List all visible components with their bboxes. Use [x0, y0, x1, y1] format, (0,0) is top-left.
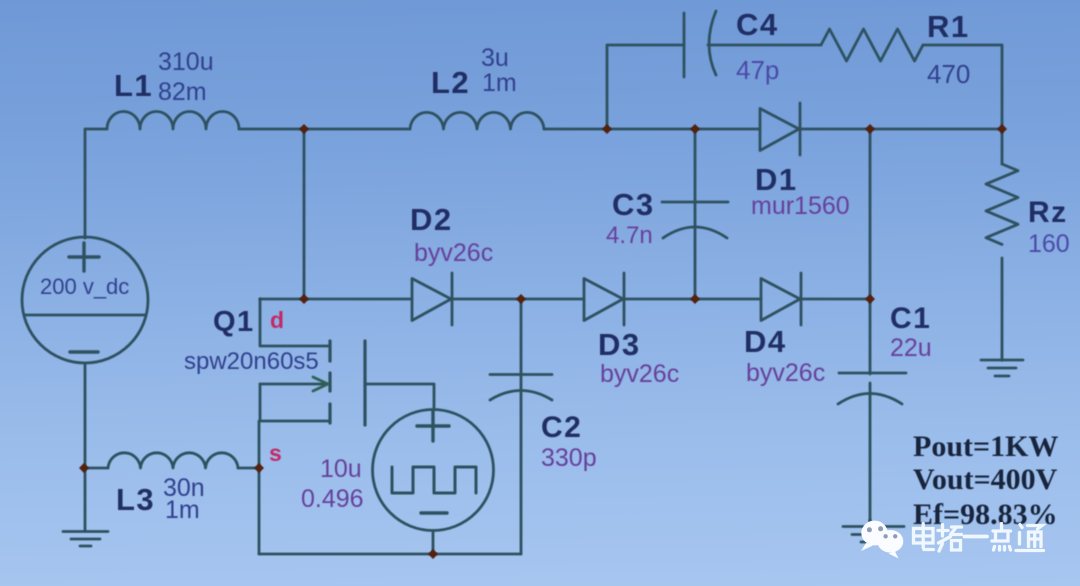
svg-text:byv26c: byv26c: [600, 360, 679, 388]
wire C1 ground lead stub: [869, 520, 872, 527]
voltage source V1 circle: [22, 237, 148, 363]
diode D3: [584, 273, 624, 325]
node top bus x304: [299, 124, 309, 134]
watermark character tong (through): [1016, 525, 1044, 551]
svg-text:d: d: [270, 307, 284, 333]
svg-text:Rz: Rz: [1028, 196, 1068, 229]
node top bus x870: [865, 124, 875, 134]
svg-text:200 v_dc: 200 v_dc: [40, 274, 129, 299]
transistor Q1 drain corner: [260, 299, 329, 346]
capacitor C2 plates: [490, 375, 552, 401]
watermark WeChat icon small bubble: [877, 530, 903, 559]
svg-text:0.496: 0.496: [301, 485, 364, 513]
wire D3 cathode to D4 anode: [624, 298, 761, 301]
node bottom rail x433: [428, 549, 438, 559]
svg-text:byv26c: byv26c: [746, 359, 825, 387]
svg-text:C3: C3: [612, 187, 655, 222]
watermark character dian (electric): [914, 524, 934, 550]
wire Rz top lead: [1001, 129, 1004, 164]
diode D1: [760, 103, 800, 155]
pulse source V2 circle: [373, 410, 494, 531]
svg-text:L1: L1: [114, 68, 153, 103]
svg-text:L3: L3: [116, 482, 155, 517]
wire R1 to right drop: [923, 45, 1002, 129]
node middle bus x870: [865, 294, 875, 304]
wire Rz bottom lead: [1001, 258, 1004, 360]
wire L3 left lead: [84, 467, 108, 470]
svg-text:82m: 82m: [158, 78, 207, 106]
watermark character lu (road): [938, 525, 962, 552]
svg-text:C1: C1: [890, 302, 931, 335]
wire D2 cathode to D3 anode: [452, 298, 584, 301]
ground under V1: [63, 532, 108, 547]
svg-text:R1: R1: [927, 9, 970, 44]
node top bus x607: [602, 124, 612, 134]
node L3 left x84: [79, 463, 89, 473]
svg-text:47p: 47p: [736, 55, 779, 85]
node middle bus x695: [690, 294, 700, 304]
wire bottom rail: [259, 553, 521, 556]
svg-text:Vout=400V: Vout=400V: [913, 463, 1058, 496]
wire pulse source bottom lead: [432, 531, 435, 555]
wire D4 cathode to C1 node: [801, 298, 870, 301]
svg-text:470: 470: [927, 59, 970, 89]
watermark WeChat icon small bubble eyes: [883, 534, 897, 538]
resistor Rz zigzag: [986, 164, 1018, 244]
node drain bus x304: [299, 294, 309, 304]
wire C4 to R1: [708, 44, 821, 47]
svg-text:D2: D2: [410, 202, 453, 237]
svg-text:C4: C4: [736, 7, 779, 42]
transistor Q1 gate plate: [363, 341, 366, 425]
node middle bus x521: [516, 294, 526, 304]
ground under Rz: [981, 360, 1023, 376]
watermark character dian (point): [992, 524, 1011, 551]
inductor L3 coil: [108, 453, 238, 468]
svg-text:L2: L2: [431, 65, 470, 100]
node L3 right x259: [254, 463, 264, 473]
pulse source V2 plus sign: [417, 411, 449, 441]
svg-text:1m: 1m: [482, 69, 517, 97]
wire L1 to L2 top bus: [239, 128, 410, 131]
svg-text:330p: 330p: [541, 444, 597, 472]
capacitor C1 plates: [838, 373, 906, 404]
wire V1 bottom lead to ground: [84, 363, 87, 531]
wire L3 right lead to s node: [238, 467, 259, 470]
svg-text:D4: D4: [744, 324, 787, 359]
capacitor C4 plates: [684, 11, 716, 77]
voltage source V1 plus sign: [69, 243, 99, 271]
svg-text:160: 160: [1028, 230, 1070, 258]
svg-text:C2: C2: [541, 411, 582, 444]
svg-text:spw20n60s5: spw20n60s5: [184, 348, 319, 375]
diode D2: [412, 273, 452, 325]
wire riser from top bus to C4 rail: [607, 45, 684, 129]
wire gate lead to pulse source: [365, 384, 434, 410]
wire C2 branch vertical: [520, 299, 523, 554]
ground under C1: [843, 527, 904, 543]
voltage source V1 minus sign: [70, 350, 98, 353]
node top bus x1002: [997, 124, 1007, 134]
svg-text:s: s: [269, 440, 282, 466]
svg-text:mur1560: mur1560: [751, 192, 850, 220]
transistor Q1 channel bar segments: [328, 341, 331, 423]
svg-text:1m: 1m: [165, 496, 200, 524]
wire V1 top lead to L1: [85, 129, 107, 238]
inductor L2 coil: [410, 112, 544, 129]
wire node x304 down to drain bus: [303, 129, 306, 299]
svg-text:byv26c: byv26c: [414, 239, 493, 267]
svg-text:Q1: Q1: [213, 306, 255, 338]
wire C3 branch vertical: [694, 129, 697, 299]
transistor Q1 arrowhead: [313, 377, 328, 391]
wire right vertical x870 down to C1: [869, 129, 872, 374]
watermark character yi (one): [965, 535, 988, 539]
watermark WeChat icon big bubble eyes: [867, 526, 883, 532]
watermark WeChat icon big bubble: [861, 521, 888, 551]
svg-text:22u: 22u: [890, 334, 932, 362]
wire middle bus d-node to D2: [260, 298, 412, 301]
svg-text:D3: D3: [598, 327, 641, 362]
diode D4: [761, 273, 801, 325]
capacitor C3 plates: [662, 202, 728, 238]
svg-text:310u: 310u: [158, 48, 214, 76]
transistor Q1 left vertical and source pin: [259, 384, 260, 554]
svg-text:Pout=1KW: Pout=1KW: [913, 430, 1058, 463]
svg-text:3u: 3u: [481, 44, 509, 72]
pulse source V2 minus sign: [421, 511, 447, 514]
transistor Q1 bulk arrow line: [260, 383, 324, 386]
node top bus x695: [690, 124, 700, 134]
voltage source V1 chord line: [24, 314, 146, 317]
inductor L1 coil: [107, 112, 239, 130]
transistor Q1 source lead: [260, 420, 329, 423]
svg-text:4.7n: 4.7n: [606, 222, 653, 249]
wire D1 cathode to top-right corner: [800, 128, 1002, 131]
svg-text:10u: 10u: [320, 455, 362, 483]
wire L2 to D1 anode: [544, 128, 760, 131]
wire C1 bottom lead: [869, 383, 872, 527]
resistor R1 zigzag: [821, 29, 923, 61]
pulse source V2 square wave: [392, 467, 476, 493]
